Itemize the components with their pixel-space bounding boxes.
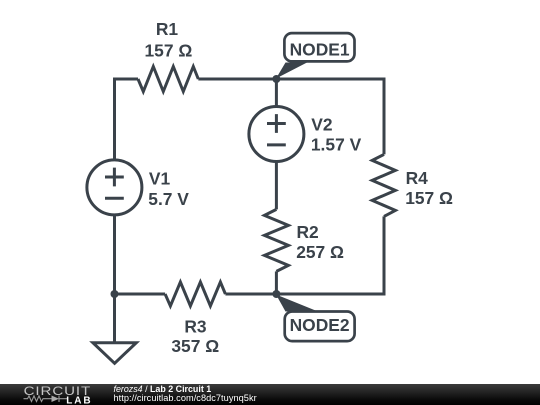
resistor R4 <box>372 154 395 216</box>
svg-text:157 Ω: 157 Ω <box>405 188 453 208</box>
svg-text:LAB: LAB <box>66 396 92 405</box>
svg-text:R1: R1 <box>156 19 179 39</box>
wire: R1 to NODE1 <box>198 78 276 81</box>
svg-text:V1: V1 <box>149 169 171 189</box>
resistor R3 <box>165 282 225 306</box>
node junction dot NODE2 <box>272 290 280 298</box>
svg-text:NODE2: NODE2 <box>290 315 350 335</box>
resistor R1 <box>138 67 198 92</box>
node junction dot bottom-left <box>111 290 119 298</box>
footer url text <box>114 393 257 403</box>
voltage source V1 <box>87 160 142 215</box>
svg-text:V2: V2 <box>311 114 332 134</box>
wire: junction up to V1 bottom <box>113 215 116 294</box>
svg-text:5.7 V: 5.7 V <box>148 189 189 209</box>
wire: top-left (V1 top lead up and right to R1) <box>115 79 139 160</box>
svg-text:R3: R3 <box>184 317 207 337</box>
node NODE2 callout <box>276 295 355 342</box>
svg-text:257 Ω: 257 Ω <box>296 242 344 262</box>
svg-text:1.57 V: 1.57 V <box>311 135 362 155</box>
svg-text:R4: R4 <box>406 168 429 188</box>
wire: R3 to bottom-left junction <box>115 293 166 296</box>
svg-text:NODE1: NODE1 <box>290 39 350 59</box>
footer title text <box>114 384 212 394</box>
wire: NODE2 to R3 <box>225 293 276 296</box>
svg-text:R2: R2 <box>297 222 319 242</box>
wire: V2 to R2 <box>275 162 278 210</box>
node NODE1 callout <box>276 33 355 78</box>
svg-text:157 Ω: 157 Ω <box>145 41 193 61</box>
CircuitLab logo <box>0 384 100 405</box>
node junction dot NODE1 <box>272 75 280 83</box>
wire: NODE1 down to V2 <box>275 79 278 107</box>
wire: R4 to bottom-right corner to NODE2 <box>276 216 384 294</box>
wire: junction down to ground <box>113 294 116 343</box>
wire: R2 to NODE2 <box>275 271 278 294</box>
voltage source V2 <box>249 107 304 162</box>
wire: NODE1 to top-right corner down to R4 <box>276 79 384 154</box>
ground <box>93 343 136 364</box>
svg-text:357 Ω: 357 Ω <box>171 336 219 356</box>
resistor R2 <box>264 209 288 271</box>
footer bar <box>0 384 540 405</box>
